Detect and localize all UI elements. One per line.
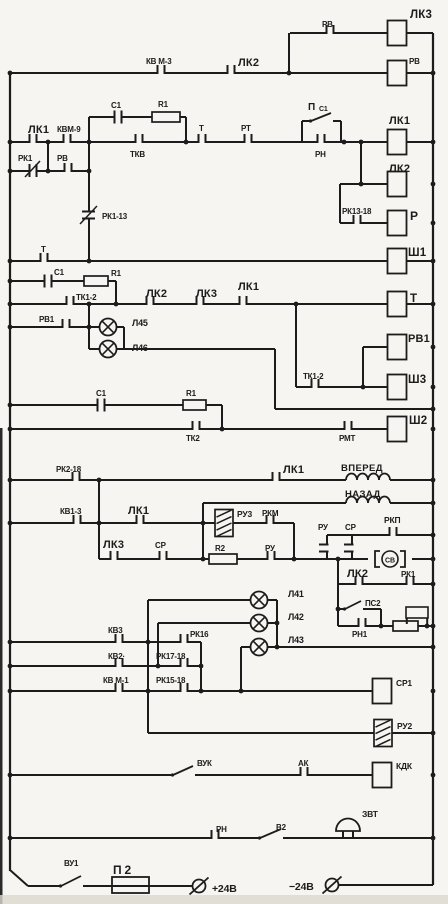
node row559 x294	[292, 557, 297, 562]
svg-text:−24В: −24В	[289, 881, 314, 893]
svg-text:РКМ: РКМ	[262, 509, 279, 518]
junction subrow171 x89	[87, 169, 92, 174]
junction РВ1coil-rightbus	[431, 345, 436, 350]
switch ВУК	[173, 766, 193, 775]
wire ПС1 branch left vert	[301, 121, 303, 142]
contact КВМ-9	[63, 140, 72, 144]
contact КВ М-3	[157, 71, 166, 75]
wire row535	[327, 534, 433, 536]
wire row409 right	[275, 408, 433, 410]
svg-text:ВПЕРЕД: ВПЕРЕД	[341, 463, 383, 474]
relay coil КДК	[373, 763, 392, 788]
wire vert x363 347-387	[362, 347, 364, 387]
node row691 x201	[199, 689, 204, 694]
svg-text:РТ: РТ	[241, 124, 251, 133]
wire bottomrow right	[339, 884, 433, 886]
wire vert x338 559-584	[337, 559, 339, 584]
node row523 x99	[97, 521, 102, 526]
svg-text:РК17-18: РК17-18	[156, 652, 186, 661]
svg-text:Л45: Л45	[132, 318, 148, 328]
svg-text:ТКВ: ТКВ	[130, 150, 145, 159]
resistor R1 (row281)	[84, 276, 108, 286]
svg-text:ЛК1: ЛК1	[283, 464, 304, 476]
lamp Л43	[251, 639, 268, 656]
svg-text:Л42: Л42	[288, 612, 304, 622]
wire vert x158 623-666	[157, 623, 159, 666]
junction Ш3-rightbus	[431, 385, 436, 390]
lamp Л46	[100, 341, 117, 358]
switch В2	[260, 829, 281, 838]
node x277 y623	[275, 621, 280, 626]
junction row775-leftbus	[8, 773, 13, 778]
node row304 x296	[294, 302, 299, 307]
junction row405-leftbus	[8, 403, 13, 408]
wire ПС2 stub	[338, 608, 343, 610]
contact КВ3	[115, 640, 124, 644]
node row3 x361	[359, 140, 364, 145]
svg-text:Т: Т	[410, 293, 417, 305]
capacitor С1 (row281)	[44, 279, 53, 283]
contact КВ М-1	[115, 689, 124, 693]
svg-text:РК1: РК1	[18, 154, 33, 163]
junction row480-leftbus	[8, 478, 13, 483]
wire bottomrow 3	[149, 885, 192, 887]
wire vert x89 327-349	[88, 327, 90, 349]
node row387 x363	[361, 385, 366, 390]
junction row1 branch	[287, 71, 292, 76]
node row559 x203	[201, 557, 206, 562]
motor СВ	[368, 550, 412, 568]
node row480 x99	[97, 478, 102, 483]
junction Ш2-rightbus	[431, 427, 436, 432]
contact ТК2	[192, 427, 201, 431]
contact ЛК1 (row523)	[136, 521, 145, 525]
junction row409-rightbus	[431, 407, 436, 412]
svg-text:C1: C1	[54, 268, 65, 277]
contact РКП	[389, 533, 398, 537]
junction row503-rightbus	[431, 501, 436, 506]
wire vert x89 304-327	[88, 304, 90, 327]
svg-text:РУ: РУ	[318, 523, 329, 532]
junction row666-leftbus	[8, 664, 13, 669]
svg-text:РУ: РУ	[265, 544, 276, 553]
svg-text:Т: Т	[41, 245, 46, 254]
svg-text:АК: АК	[298, 759, 309, 768]
wire vert x48 rows142-171	[47, 142, 49, 171]
resistor small (bypass box)	[406, 607, 428, 618]
wire vert x241 647-691	[240, 647, 242, 691]
junction rowШ1-rightbus	[431, 259, 436, 264]
wire vert x222 405-429	[221, 405, 223, 429]
node row3 x89	[87, 140, 92, 145]
node rowШ1 x89	[87, 259, 92, 264]
node row626 x381	[379, 624, 384, 629]
svg-text:РК1-13: РК1-13	[102, 212, 128, 221]
svg-text:РВ: РВ	[409, 57, 420, 66]
wire row2	[10, 72, 433, 74]
contact РУ (row559)	[267, 557, 276, 561]
svg-text:РУ3: РУ3	[237, 509, 252, 519]
contact ЛК1 (row304)	[239, 302, 248, 306]
svg-text:КДК: КДК	[396, 761, 413, 771]
svg-text:КВМ-9: КВМ-9	[57, 125, 81, 134]
wire row387	[296, 386, 388, 388]
svg-text:РУ2: РУ2	[397, 721, 412, 731]
wire lamp41 right	[267, 599, 277, 601]
junction row304-leftbus	[8, 302, 13, 307]
contact РН1	[358, 624, 367, 628]
wire row559	[99, 558, 433, 560]
contact ЛК3 (row304)	[196, 302, 205, 306]
wire subrow171	[10, 170, 89, 172]
wire lamp46-left	[89, 348, 100, 350]
inductor coil ВПЕРЕД	[346, 478, 390, 482]
svg-text:КВ М-1: КВ М-1	[103, 676, 129, 685]
contact РКМ	[266, 521, 275, 525]
wire row304	[10, 303, 433, 305]
resistor R2	[209, 554, 237, 564]
node row666 x201	[199, 664, 204, 669]
relay coil ЛК2	[388, 172, 407, 197]
junction row647-rightbus	[431, 645, 436, 650]
node x361 y184	[359, 182, 364, 187]
contact ТКВ	[135, 140, 144, 144]
wire left bus vertical	[9, 73, 11, 871]
wire lamp46-right	[116, 348, 275, 350]
junction row480-rightbus	[431, 478, 436, 483]
wire branch C1R1 top	[89, 116, 186, 118]
junction row642-leftbus	[8, 640, 13, 645]
wire vert x203 503-559	[202, 503, 204, 559]
wire row626	[338, 625, 433, 627]
contact ТК1-2 (row387)	[311, 385, 320, 389]
contact ЛК1 (row3)	[29, 140, 38, 144]
wire vert x201 top	[200, 642, 202, 646]
relay coil Ш1	[388, 249, 407, 274]
svg-text:РН: РН	[216, 825, 227, 834]
wire row429	[10, 428, 388, 430]
junction LK2row-rightbus	[431, 182, 436, 187]
junction row2-leftbus	[8, 71, 13, 76]
junction x48 row142	[46, 140, 51, 145]
relay coil РВ1	[388, 335, 407, 360]
wire left bus bottom diagonal	[10, 870, 28, 886]
contact РК1 (subrow)	[29, 169, 38, 173]
svg-text:Л41: Л41	[288, 589, 304, 599]
contact РК17-18	[180, 664, 189, 668]
contact ТК1-2 (row304)	[66, 302, 75, 306]
svg-text:РМТ: РМТ	[339, 434, 355, 443]
node row3 x344	[342, 140, 347, 145]
svg-text:Л43: Л43	[288, 635, 304, 645]
svg-text:РВ: РВ	[57, 154, 68, 163]
node row691 x241	[239, 689, 244, 694]
wire row691	[10, 690, 388, 692]
contact Т (row3)	[198, 140, 207, 144]
wire branch C1R1 left vert	[88, 117, 90, 142]
wire vert x381 609-626	[380, 609, 382, 626]
contact КВ1-3	[73, 521, 82, 525]
contact РУ (vert)	[325, 544, 329, 553]
junction rowШ1-leftbus	[8, 259, 13, 264]
junction row838-rightbus	[431, 836, 436, 841]
svg-text:ЛК1: ЛК1	[238, 281, 259, 293]
wire row642	[10, 641, 201, 643]
svg-text:ЛК2: ЛК2	[238, 57, 259, 69]
contact РК2-18	[72, 478, 81, 482]
wire right bus vertical	[432, 33, 434, 885]
wire vertical row1-row2	[288, 33, 290, 73]
svg-text:R2: R2	[215, 544, 226, 553]
svg-text:КВ М-3: КВ М-3	[146, 57, 172, 66]
contact ЛК1 (row480)	[272, 478, 281, 482]
svg-text:РВ: РВ	[322, 20, 333, 29]
wire P coil row	[340, 222, 388, 224]
svg-text:ЛК1: ЛК1	[389, 115, 410, 127]
wire row РВ1	[10, 326, 100, 328]
svg-text:СР1: СР1	[396, 678, 412, 688]
junction row626-rightbus	[431, 624, 436, 629]
wire vert x89 142-261	[88, 142, 90, 261]
wire row405	[10, 404, 222, 406]
junction row559-rightbus	[431, 557, 436, 562]
wire bottomrow 2	[83, 885, 112, 887]
svg-text:РН: РН	[315, 150, 326, 159]
svg-text:С1: С1	[319, 106, 328, 113]
contact ЛК2 (row304)	[146, 302, 155, 306]
svg-text:R1: R1	[186, 389, 197, 398]
contact АК	[300, 773, 309, 777]
bell ЗВТ	[336, 818, 360, 831]
node row523 x203	[201, 521, 206, 526]
node row691 x148	[146, 689, 151, 694]
contact РВ (subrow)	[64, 169, 73, 173]
switch П С1	[311, 113, 331, 121]
wire lamp43 feed	[241, 646, 250, 648]
svg-text:ТК1-2: ТК1-2	[303, 372, 324, 381]
wire ПС1 branch top left stub	[302, 120, 309, 122]
svg-text:ЛК3: ЛК3	[410, 9, 432, 21]
svg-text:ВУК: ВУК	[197, 759, 212, 768]
node row304 x116	[114, 302, 119, 307]
capacitor C1 (row405)	[97, 403, 106, 407]
svg-text:ТК1-2: ТК1-2	[76, 293, 97, 302]
switch ПС2	[345, 601, 361, 609]
fuse П2	[112, 877, 149, 893]
contact РК1-13	[87, 211, 91, 220]
svg-text:ЛК2: ЛК2	[389, 163, 410, 175]
svg-text:ВУ1: ВУ1	[64, 859, 79, 868]
junction row733-rightbus	[431, 731, 436, 736]
wire lamp42 feed	[158, 622, 250, 624]
contact РК15-18	[180, 689, 189, 693]
svg-text:ЛК1: ЛК1	[128, 505, 149, 517]
svg-text:РН1: РН1	[352, 630, 368, 639]
relay coil Ш3	[388, 375, 407, 400]
svg-text:КВ2·: КВ2·	[108, 652, 125, 661]
contact РН (row838)	[211, 836, 220, 840]
svg-text:Р: Р	[410, 209, 418, 223]
svg-text:КВ3: КВ3	[108, 626, 123, 635]
wire vert x340 184-223	[339, 184, 341, 223]
svg-text:R1: R1	[111, 269, 122, 278]
svg-text:РК1: РК1	[401, 570, 416, 579]
svg-text:РВ1: РВ1	[408, 333, 430, 345]
relay coil РВ	[388, 61, 407, 86]
svg-text:СВ: СВ	[385, 558, 395, 565]
contact РВ1	[62, 325, 71, 329]
resistor (row626)	[393, 621, 418, 631]
wire vert x99 480-559	[98, 480, 100, 559]
wire vert x116 281-304	[115, 281, 117, 304]
junction row523-leftbus	[8, 521, 13, 526]
wire vert x124 327-349	[123, 327, 125, 349]
relay coil ЛК1	[388, 130, 407, 155]
wire row480	[10, 479, 433, 481]
svg-text:ЛК2: ЛК2	[347, 568, 368, 580]
svg-text:Ш1: Ш1	[408, 247, 427, 259]
terminal -24В	[326, 879, 339, 892]
lamp Л42	[251, 615, 268, 632]
junction row535-rightbus	[431, 533, 436, 538]
node row3 x186	[184, 140, 189, 145]
contact СР (vert)	[350, 544, 354, 553]
svg-text:ЗВТ: ЗВТ	[362, 809, 379, 819]
contact РВ (row1)	[326, 31, 335, 35]
wire РУ vert 535-559	[326, 535, 328, 559]
capacitor C1 (row3 branch)	[114, 115, 123, 119]
svg-text:C1: C1	[96, 389, 107, 398]
svg-text:+24В: +24В	[212, 883, 237, 895]
wire ПС1 branch right vert	[340, 121, 342, 142]
svg-text:П: П	[308, 102, 315, 113]
wire row584	[338, 583, 433, 585]
svg-text:Ш2: Ш2	[409, 415, 427, 427]
wire vert x277 600-647	[276, 600, 278, 647]
svg-text:В2: В2	[276, 823, 287, 832]
svg-text:ЛК2: ЛК2	[146, 288, 167, 300]
junction row775-rightbus	[431, 773, 436, 778]
node x277 y647	[275, 645, 280, 650]
wire vert x296 304-387	[295, 304, 297, 387]
contact ЛК2 (row584)	[355, 582, 364, 586]
resistor R1 (row405)	[183, 400, 206, 410]
contact ЛК3 (row559)	[110, 557, 119, 561]
wire lamp43 right to bus	[267, 646, 433, 648]
junction subrow171-leftbus	[8, 169, 13, 174]
svg-text:СР: СР	[155, 541, 167, 550]
svg-text:РК13-18: РК13-18	[342, 207, 372, 216]
svg-text:НАЗАД: НАЗАД	[345, 489, 381, 500]
relay coil СР1	[373, 679, 392, 704]
wire vert x294 523-559	[293, 523, 295, 559]
wire vert x275 349-409	[274, 349, 276, 409]
junction row691-rightbus	[431, 689, 436, 694]
node row666 x158	[156, 664, 161, 669]
wire ПС2 right	[363, 608, 381, 610]
junction Prow-rightbus	[431, 221, 436, 226]
scan artifact left edge	[0, 428, 3, 904]
node row559 x338	[336, 557, 341, 562]
svg-text:Ш3: Ш3	[408, 374, 426, 386]
inductor coil НАЗАД	[346, 501, 390, 505]
wire СР vert 535-559	[351, 535, 353, 559]
relay coil Р	[388, 211, 407, 236]
wire lamp45-right	[116, 326, 124, 328]
wire LK2 coil row	[340, 183, 388, 185]
contact РТ	[244, 140, 253, 144]
wire vert x361 142-184	[360, 142, 362, 184]
junction row281-leftbus	[8, 279, 13, 284]
svg-text:Т: Т	[199, 124, 204, 133]
valve РУ2	[374, 720, 392, 747]
contact РМТ	[344, 427, 353, 431]
wire bottomrow left	[28, 885, 59, 887]
svg-text:Л46: Л46	[132, 343, 148, 353]
scan artifact bottom band	[0, 895, 448, 904]
junction row584-rightbus	[431, 582, 436, 587]
svg-text:П 2: П 2	[113, 863, 132, 877]
switch ВУ1	[61, 876, 81, 886]
wire row C1R1 (281)	[10, 280, 116, 282]
junction row304-rightbus	[431, 302, 436, 307]
wire row523	[10, 522, 294, 524]
wire lamp42 right	[267, 622, 277, 624]
junction row838-leftbus	[8, 836, 13, 841]
svg-text:ТК2: ТК2	[186, 434, 200, 443]
svg-text:ЛК1: ЛК1	[28, 124, 49, 136]
wire row838 right	[283, 837, 433, 839]
svg-text:C1: C1	[111, 101, 122, 110]
junction row2-rightbus	[431, 71, 436, 76]
svg-text:ЛК3: ЛК3	[103, 539, 124, 551]
node row642 x148	[146, 640, 151, 645]
wire row775 right	[195, 774, 388, 776]
svg-text:СР: СР	[345, 523, 357, 532]
relay coil Т	[388, 292, 407, 317]
relay coil Ш2	[388, 417, 407, 442]
valve РУ3	[215, 510, 233, 537]
wire vert x338 584-626	[337, 584, 339, 626]
wire row733	[148, 732, 433, 734]
contact РК13-18	[353, 221, 362, 225]
wire ПС1 branch top right stub	[333, 120, 341, 122]
svg-text:РКП: РКП	[384, 515, 400, 525]
wire row775 left	[10, 774, 171, 776]
wire row666	[10, 665, 201, 667]
wire row Ш1	[10, 260, 433, 262]
node row304 x89	[87, 302, 92, 307]
wire lamp41 feed	[148, 599, 250, 601]
svg-text:R1: R1	[158, 100, 169, 109]
svg-text:РК16: РК16	[190, 630, 209, 639]
resistor R1 (row3 branch)	[152, 112, 180, 122]
junction row429-leftbus	[8, 427, 13, 432]
svg-text:ЛК3: ЛК3	[196, 288, 217, 300]
contact СР (row559)	[159, 557, 168, 561]
svg-text:КВ1-3: КВ1-3	[60, 507, 82, 516]
junction rowРВ1-leftbus	[8, 325, 13, 330]
node row429 x222	[220, 427, 225, 432]
svg-text:РК2-18: РК2-18	[56, 465, 82, 474]
junction row3-rightbus	[431, 140, 436, 145]
contact ЛК2 (row2)	[227, 71, 236, 75]
contact Т (rowШ1)	[40, 259, 49, 263]
svg-text:ПС2: ПС2	[365, 599, 381, 608]
svg-text:РК15-18: РК15-18	[156, 676, 186, 685]
node rowРВ1 x89	[87, 325, 92, 330]
lamp Л41	[251, 592, 268, 609]
